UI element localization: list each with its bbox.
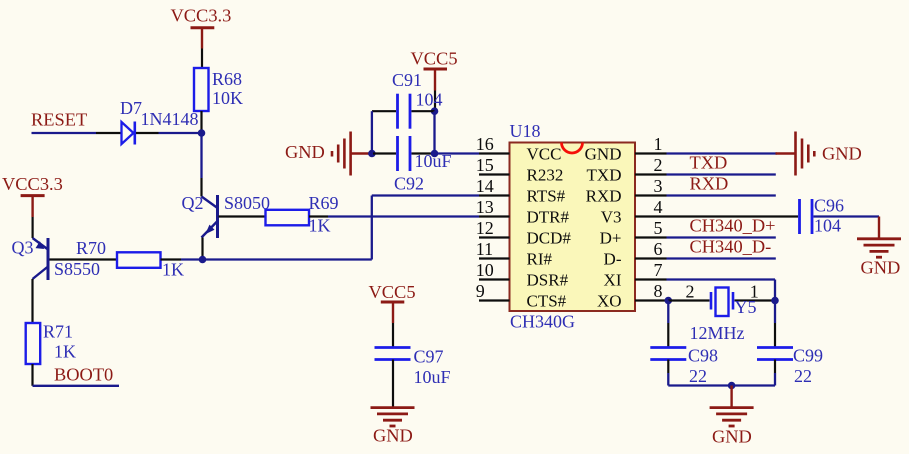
- net label CH340_D+: [690, 216, 776, 236]
- capacitor C97: [375, 323, 451, 407]
- svg-text:VCC: VCC: [527, 144, 562, 163]
- ground GND below C96 (earth): [857, 239, 901, 278]
- wire pin4 to C96: [667, 215, 799, 217]
- wire pin6 CH340_D-: [667, 257, 776, 259]
- wire R69 to pin13: [328, 215, 479, 217]
- svg-text:RXD: RXD: [690, 174, 729, 194]
- svg-text:GND: GND: [373, 426, 413, 446]
- ground GND pin1 (sideways): [776, 132, 862, 176]
- transistor Q2 S8050: [182, 193, 271, 238]
- wire VCC3.3 to R68: [201, 49, 203, 69]
- svg-text:C98: C98: [688, 345, 718, 365]
- ground GND left (sideways): [285, 132, 369, 176]
- svg-text:4: 4: [654, 197, 663, 217]
- resistor R68: [194, 68, 243, 133]
- svg-text:D+: D+: [600, 228, 622, 247]
- wire pin1 to GND: [667, 152, 778, 154]
- capacitor C99: [757, 345, 823, 386]
- svg-text:RESET: RESET: [31, 110, 87, 130]
- wire node B to pin14: [203, 196, 480, 260]
- wire D7 to node A: [159, 132, 202, 134]
- svg-text:CH340G: CH340G: [510, 312, 575, 332]
- svg-text:Q3: Q3: [12, 238, 34, 258]
- svg-text:1N4148: 1N4148: [141, 109, 199, 129]
- svg-text:TXD: TXD: [690, 153, 728, 173]
- svg-text:12MHz: 12MHz: [690, 323, 745, 343]
- resistor R69: [266, 193, 339, 235]
- svg-text:BOOT0: BOOT0: [54, 365, 113, 385]
- svg-text:R71: R71: [43, 321, 73, 341]
- svg-text:15: 15: [476, 155, 494, 175]
- ground GND below crystal (earth): [710, 386, 754, 447]
- pin 14 RTS#: [476, 176, 566, 205]
- svg-text:RTS#: RTS#: [527, 186, 566, 205]
- wire C99 to rail: [774, 360, 776, 386]
- pin 11 RI#: [476, 239, 553, 268]
- capacitor C91: [372, 70, 443, 129]
- svg-text:D-: D-: [604, 249, 622, 268]
- svg-text:3: 3: [654, 176, 663, 196]
- net label RXD: [690, 174, 729, 194]
- junction node H (rail/GND): [728, 382, 736, 390]
- svg-text:Q2: Q2: [182, 193, 204, 213]
- svg-text:1K: 1K: [162, 259, 184, 279]
- wire Q3 base to R70: [50, 258, 118, 260]
- svg-text:C91: C91: [392, 70, 422, 90]
- wire C91 left to node D: [371, 111, 373, 153]
- pin 1 GND: [585, 134, 667, 163]
- svg-text:S8050: S8050: [224, 193, 270, 213]
- svg-text:V3: V3: [601, 207, 622, 226]
- net label RESET: [31, 110, 87, 130]
- ground GND below C97 (earth): [371, 408, 415, 446]
- svg-text:16: 16: [476, 134, 494, 154]
- pin 5 D+: [600, 218, 667, 247]
- svg-text:TXD: TXD: [587, 165, 622, 184]
- svg-text:CTS#: CTS#: [527, 291, 567, 310]
- svg-text:11: 11: [476, 239, 493, 259]
- svg-text:22: 22: [794, 366, 812, 386]
- svg-text:5: 5: [654, 218, 663, 238]
- power VCC5 bottom: [369, 282, 416, 323]
- pin 4 V3: [601, 197, 667, 226]
- wire Q2 emitter to node B: [201, 238, 203, 260]
- pin 12 DCD#: [476, 218, 572, 247]
- wire C98 to rail: [667, 360, 669, 386]
- transistor Q3 S8550: [12, 238, 101, 281]
- svg-text:VCC5: VCC5: [369, 282, 416, 302]
- svg-text:CH340_D+: CH340_D+: [690, 216, 776, 236]
- pin 15 R232: [476, 155, 564, 184]
- svg-text:10: 10: [476, 260, 494, 280]
- wire pin5 CH340_D+: [667, 236, 776, 238]
- svg-text:13: 13: [476, 197, 494, 217]
- svg-text:8: 8: [654, 281, 663, 301]
- resistor R71: [26, 321, 76, 386]
- svg-text:VCC3.3: VCC3.3: [171, 5, 232, 25]
- pin 8 XO: [597, 281, 667, 310]
- svg-text:D7: D7: [120, 98, 142, 118]
- svg-text:DSR#: DSR#: [527, 270, 569, 289]
- svg-text:Y5: Y5: [735, 297, 757, 317]
- wire ground rail: [668, 384, 775, 386]
- svg-text:GND: GND: [822, 143, 862, 163]
- capacitor C92: [373, 136, 452, 194]
- svg-text:R70: R70: [76, 238, 106, 258]
- wire node C to node E: [433, 111, 435, 153]
- pin 7 XI: [604, 260, 667, 289]
- svg-text:2: 2: [686, 282, 695, 302]
- power VCC5 top: [411, 49, 458, 91]
- svg-text:VCC3.3: VCC3.3: [2, 174, 63, 194]
- svg-text:RI#: RI#: [527, 249, 553, 268]
- resistor R70: [76, 238, 184, 279]
- junction node G (Y5 pin1/pin7 net/C99): [771, 297, 779, 305]
- svg-text:1K: 1K: [54, 342, 76, 362]
- capacitor C98: [650, 345, 718, 386]
- junction node E (C92 right/VCC rail): [431, 150, 439, 158]
- wire node A to Q2 collector: [200, 133, 202, 197]
- pin 6 D-: [604, 239, 667, 268]
- svg-text:C99: C99: [793, 345, 823, 365]
- junction node B (R70/Q2 emitter/pin14 net): [199, 256, 207, 264]
- svg-text:1: 1: [654, 134, 663, 154]
- svg-text:C97: C97: [414, 347, 444, 367]
- svg-text:12: 12: [476, 218, 494, 238]
- pin 10 DSR#: [476, 260, 569, 289]
- svg-text:DTR#: DTR#: [527, 207, 570, 226]
- wire pin7 to crystal pin1: [667, 280, 776, 301]
- svg-text:14: 14: [476, 176, 494, 196]
- net label CH340_D-: [690, 237, 772, 257]
- svg-text:R232: R232: [527, 165, 564, 184]
- pin 3 RXD: [586, 176, 667, 205]
- svg-text:104: 104: [814, 216, 841, 236]
- wire VCC3.3 to Q3 emitter: [31, 217, 33, 238]
- svg-text:1K: 1K: [309, 216, 331, 236]
- pin 9 CTS#: [476, 281, 567, 310]
- wire BOOT0: [33, 385, 120, 387]
- svg-text:CH340_D-: CH340_D-: [690, 237, 772, 257]
- junction node A (R68/D7/Q2): [198, 129, 206, 137]
- svg-text:R69: R69: [309, 193, 339, 213]
- net label BOOT0: [54, 365, 113, 385]
- svg-text:C92: C92: [394, 174, 424, 194]
- wire C96 to GND: [814, 217, 880, 239]
- wire node E to pin16: [435, 152, 480, 154]
- svg-text:XO: XO: [597, 291, 622, 310]
- svg-text:10uF: 10uF: [414, 367, 451, 387]
- svg-text:DCD#: DCD#: [527, 228, 572, 247]
- svg-text:104: 104: [416, 89, 443, 109]
- svg-text:GND: GND: [712, 426, 752, 446]
- svg-text:XI: XI: [604, 270, 622, 289]
- wire node G to C99: [774, 301, 776, 348]
- svg-text:9: 9: [476, 281, 485, 301]
- wire RESET: [32, 132, 97, 134]
- power VCC3.3 left: [2, 174, 63, 217]
- svg-text:22: 22: [689, 366, 707, 386]
- diode D7 1N4148: [96, 98, 199, 144]
- wire Q3 collector to R71: [31, 279, 33, 323]
- svg-text:R68: R68: [212, 69, 242, 89]
- wire Q2 base to R69: [219, 215, 266, 217]
- pin 2 TXD: [587, 155, 667, 184]
- pin 13 DTR#: [476, 197, 570, 226]
- svg-text:6: 6: [654, 239, 663, 259]
- junction node C (VCC5/C91 right): [431, 107, 439, 115]
- svg-text:S8550: S8550: [54, 259, 100, 279]
- svg-text:U18: U18: [510, 121, 541, 141]
- crystal Y5 12MHz: [668, 282, 775, 344]
- wire pin3 RXD: [667, 194, 776, 196]
- junction node F (pin8/Y5 pin2/C98): [665, 297, 673, 305]
- svg-text:RXD: RXD: [586, 186, 622, 205]
- wire node F to C98: [667, 301, 669, 348]
- svg-text:GND: GND: [585, 144, 622, 163]
- svg-text:7: 7: [654, 260, 663, 280]
- svg-text:2: 2: [654, 155, 663, 175]
- wire VCC5 to node C: [434, 91, 436, 112]
- svg-text:C96: C96: [814, 196, 844, 216]
- junction node D (GND/C92 left/C91 left): [368, 150, 376, 158]
- wire R70 to node B: [181, 258, 203, 260]
- power VCC3.3 top: [171, 5, 232, 48]
- svg-text:GND: GND: [861, 258, 901, 278]
- svg-text:10K: 10K: [212, 88, 243, 108]
- svg-text:VCC5: VCC5: [411, 49, 458, 69]
- pin 16 VCC: [476, 134, 562, 163]
- capacitor C96: [800, 196, 845, 236]
- IC U18 CH340G body: [510, 121, 636, 332]
- wire pin2 TXD: [667, 173, 776, 175]
- net label TXD: [690, 153, 728, 173]
- svg-text:GND: GND: [285, 142, 325, 162]
